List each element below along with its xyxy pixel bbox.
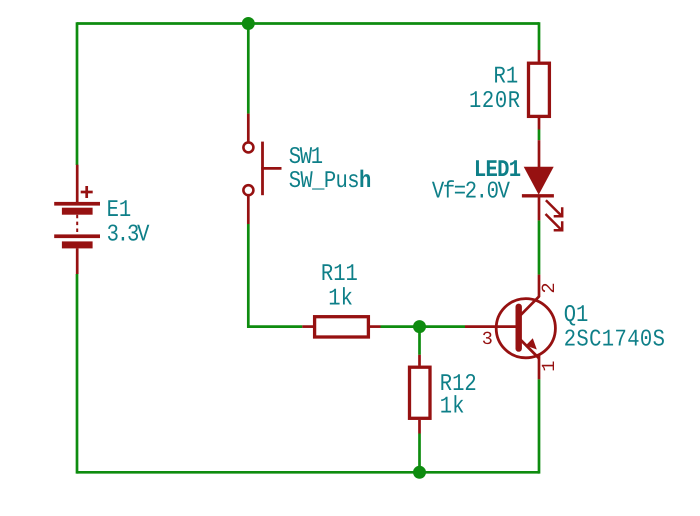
wire switch branch upper	[247, 24, 250, 114]
wire between R1 and LED	[538, 130, 541, 141]
svg-text:R11: R11	[321, 261, 358, 288]
wire between LED and Q1 collector	[538, 220, 541, 274]
wire R12 bottom to node C	[418, 434, 421, 473]
wire node B to Q1 base	[420, 325, 466, 328]
wire R11 left	[247, 325, 302, 328]
switch SW1 symbol	[243, 114, 281, 224]
svg-text:Vf=2.0V: Vf=2.0V	[432, 179, 511, 206]
svg-text:E1: E1	[107, 197, 132, 224]
svg-text:3: 3	[482, 329, 493, 350]
wire top-right from junction to R1 branch	[248, 22, 539, 25]
battery E1 symbol	[54, 165, 100, 274]
wire switch branch lower	[247, 224, 250, 328]
resistor R11	[302, 317, 380, 337]
svg-text:SW_Push: SW_Push	[289, 168, 371, 195]
junction node B (R11/R12/base)	[413, 320, 426, 333]
wire R11 right to node B	[381, 325, 420, 328]
svg-text:1k: 1k	[440, 394, 465, 421]
wire left vertical lower (battery -)	[76, 274, 79, 474]
svg-text:120R: 120R	[469, 88, 521, 115]
svg-text:2SC1740S: 2SC1740S	[564, 326, 666, 353]
wire bottom horizontal	[77, 471, 539, 474]
svg-text:1: 1	[539, 361, 560, 372]
resistor R12	[410, 355, 431, 434]
svg-text:2: 2	[539, 282, 560, 293]
junction node A (top, switch branch)	[242, 17, 255, 30]
wire collector branch top	[538, 22, 541, 50]
wire top-left from battery to junction	[77, 22, 248, 25]
junction node C (bottom, R12/emitter)	[413, 466, 426, 479]
wire node B down to R12	[418, 327, 421, 355]
svg-text:3.3V: 3.3V	[107, 222, 150, 249]
wire left vertical upper (battery +)	[76, 22, 79, 165]
svg-text:1k: 1k	[328, 286, 353, 313]
wire Q1 emitter to bottom	[538, 379, 541, 473]
svg-text:Q1: Q1	[564, 302, 589, 329]
svg-text:R1: R1	[494, 64, 519, 91]
LED LED1 symbol	[522, 140, 562, 230]
transistor Q1 symbol	[465, 275, 555, 380]
resistor R1	[529, 50, 550, 130]
